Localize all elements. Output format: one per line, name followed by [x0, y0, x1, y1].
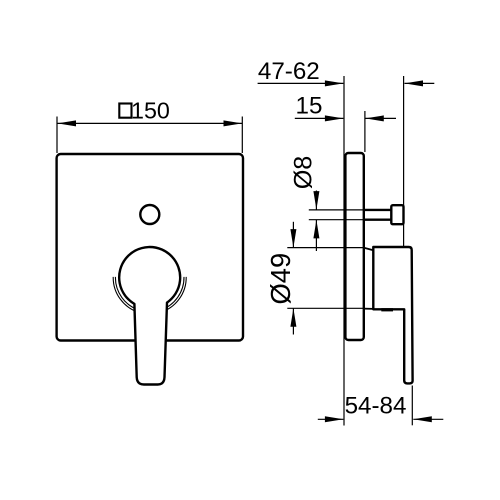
dimension d49: extension line bottom: [287, 307, 364, 309]
svg-text:47-62: 47-62: [258, 58, 320, 85]
dimension 150: extension line left: [56, 117, 58, 154]
dimension d49: arrow upper: [290, 229, 296, 248]
dimension d49: dimension line upper: [292, 222, 294, 248]
dimension 47-62: arrow at handle line: [405, 80, 424, 86]
front view: handle rosette circle and lever: [119, 247, 180, 385]
svg-text:54-84: 54-84: [345, 392, 407, 419]
side view: supply pipe bottom edge: [363, 218, 392, 220]
front view: lever swing arc left inner: [115, 277, 139, 310]
dimension 150: square symbol: [119, 104, 131, 118]
dimension 150: extension line right: [241, 117, 243, 154]
side view: supply pipe extension line top: [309, 209, 365, 211]
dimension d49: dimension line lower: [292, 308, 294, 334]
side view: pipe connector: [391, 205, 403, 224]
dimension 15: arrow at plate front: [365, 115, 384, 121]
dimension d49: arrow lower: [290, 308, 296, 327]
side view: cone transition bottom: [364, 308, 373, 310]
dimension d8: dimension line lower: [315, 220, 317, 251]
dimension 54-84: arrow at wall line: [325, 416, 344, 422]
front view: lever swing arc right outer: [160, 277, 186, 313]
side view: cartridge and lever body: [373, 247, 412, 383]
dimension d8: dimension line upper: [315, 191, 317, 210]
dimension 47-62: dimension line left part: [258, 82, 344, 84]
dimension 54-84: extension line at lever: [411, 386, 413, 426]
front view: wall plate: [57, 154, 243, 341]
svg-text:Ø49: Ø49: [265, 253, 296, 305]
dimension 47-62: extension line at handle front: [403, 76, 405, 246]
dimension d49: extension line top: [287, 247, 364, 249]
svg-text:15: 15: [296, 92, 323, 119]
side view: supply pipe top edge: [363, 209, 392, 211]
dimension 15: arrow at wall line: [325, 115, 344, 121]
dimension 47-62: dimension line right part: [405, 82, 435, 84]
dimension 15: dimension line right part: [365, 117, 396, 119]
side view: wall plate: [345, 153, 363, 340]
svg-text:150: 150: [131, 98, 170, 124]
dimension 54-84: dimension line right part: [413, 418, 443, 420]
side view: lever hub parting dash: [381, 308, 393, 311]
dimension d8: arrow upper: [313, 191, 319, 210]
side view: wall surface extension line: [343, 76, 345, 426]
dimension 150: arrow left: [58, 120, 77, 126]
dimension 150: dimension line: [58, 122, 243, 124]
front view: lever swing arc right inner: [160, 277, 184, 310]
dimension 150: arrow right: [224, 120, 243, 126]
dimension 15: dimension line left part: [295, 117, 344, 119]
side view: cone transition top: [364, 248, 373, 251]
side view: supply pipe extension line bottom: [309, 219, 365, 221]
dimension 54-84: arrow at lever line: [413, 416, 432, 422]
dimension 47-62: arrow at wall line: [325, 80, 344, 86]
dimension d8: arrow lower: [313, 220, 319, 239]
front view: push button: [140, 205, 159, 224]
dimension 54-84: dimension line left part: [318, 418, 344, 420]
svg-text:Ø8: Ø8: [289, 156, 317, 190]
front view: lever swing arc left outer: [113, 277, 139, 313]
dimension 15: extension line at plate front: [364, 111, 366, 152]
